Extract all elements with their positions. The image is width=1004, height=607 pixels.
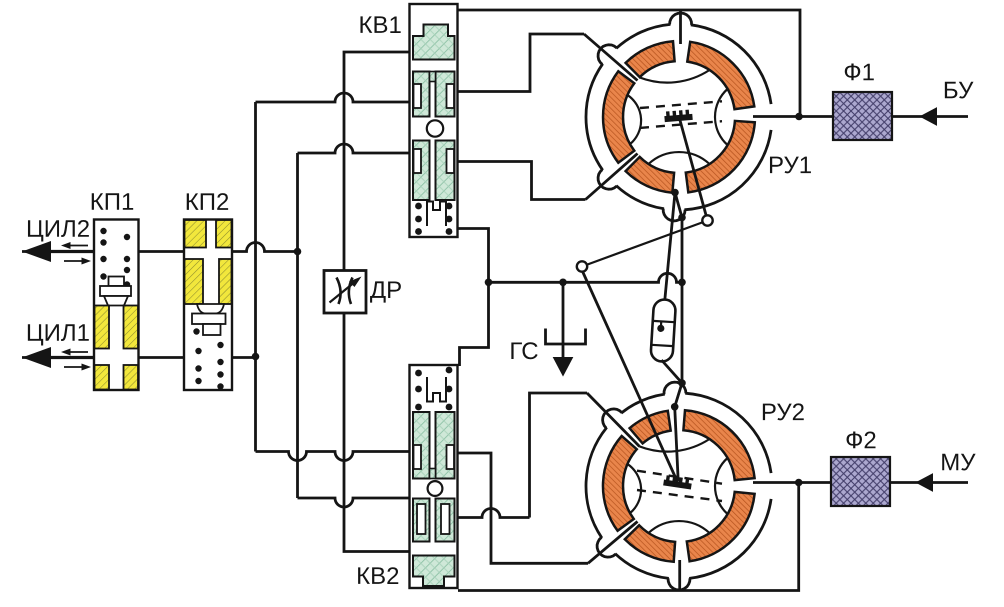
KV2 lower spool land right [436,499,455,542]
damper rod lower [662,360,683,383]
RU1 spool tongue [664,109,693,122]
lever: RU1 rotor output lever [680,119,708,221]
KV2 body [410,365,458,588]
svg-text:ЦИЛ2: ЦИЛ2 [26,216,90,243]
svg-text:БУ: БУ [943,77,974,104]
KV1 upper bar [430,72,436,82]
RU2 spool tongue [663,475,692,490]
damper rod upper [665,193,675,301]
DR throttle curves [337,278,353,305]
pivot P1 [577,261,587,271]
svg-text:КП2: КП2 [185,189,230,216]
KV1 body [410,4,458,237]
arrow: BU flow arrowhead [921,108,937,125]
RU1 housing (scalloped body) [586,13,771,221]
RU2 rotor crescent N [639,439,709,452]
KP2 seat blocks (yellow cross) [185,220,207,248]
RU1 spool slot dashed lines [640,101,722,128]
KV2 lower spool land left [413,499,430,542]
KP2 spring dots [193,328,199,334]
link: pivot1 to RU2 rotor [581,268,678,482]
wire: KV1 right port 1 to RU1 upper-left lever [457,34,584,92]
wire: KV1 left port 1 down to DR (vertical C) [344,52,412,270]
filter F2 [831,457,890,506]
DR box [324,271,366,314]
wire: DR to KV2 lower-left port [344,313,415,552]
filter F1 [833,92,892,140]
link: pivot1 to pivot2 rod [582,221,708,267]
KV2 lower port window right [441,504,450,534]
svg-text:КП1: КП1 [90,189,135,216]
wire: KV1 left port 3 via vertical B to KV2 (hop C) [298,144,413,153]
wire: CIL1 line through KP1/KP2 to node A [22,356,256,359]
KP2 poppet [197,304,224,314]
arrow: MU flow arrowhead [917,474,933,491]
RU1 ring (orange sleeve with ports) [687,42,754,109]
RU2 ring (orange sleeve with ports) [683,410,754,480]
wire: RU2 bottom stub [678,560,681,591]
KP1 body [94,220,139,391]
wire: CIL2 line through KP1/KP2 to node B (hop A) [22,243,298,252]
lever: RU2 lower-left pipe into ring [588,522,638,564]
KV2 upper port window left [414,445,422,469]
wire: bottom bus KV2 to F2 junction [458,483,799,591]
KP2 body [184,220,232,391]
wire: top bus from KV1 to F1 junction [457,10,800,117]
KV1 lower spool land right [436,141,455,201]
svg-text:РУ2: РУ2 [761,399,805,426]
KV1 upper port window right [447,84,455,108]
wire: mid bus y=282 (hop over damper rod) [489,273,683,282]
RU2 rotor crescent W [628,464,642,513]
RU2 housing (scalloped body) [586,382,771,590]
tank GS symbol [546,329,586,345]
KV1 lower port window left [414,149,422,173]
KV2 lower port window left [417,504,426,534]
svg-text:Ф2: Ф2 [845,427,877,454]
damper D1 (capsule) [650,299,676,362]
RU1 rotor crescent N [639,70,709,83]
arrow CIL2 main [50,250,94,253]
wire: F1 to BU arrow line [892,115,968,118]
RU1 rotor crescent S [649,152,710,164]
lever: RU1 lower-left pipe into ring [586,154,638,200]
wire: KV2 right port 1 to RU2 lower-left lever [457,453,588,563]
svg-text:РУ1: РУ1 [768,152,812,179]
svg-text:ДР: ДР [370,277,402,304]
RU2 rotor crescent E [715,458,728,514]
KV1 poppet seat piece [427,202,446,227]
arrow CIL2 small pair [68,245,88,247]
wire: KV1 right port 2 to RU1 lower-left lever [457,162,586,200]
KV2 upper spool land right [436,412,455,479]
wire: RU1 top stub [679,10,682,44]
KV2 bottom plug (green) [413,556,455,587]
arrow CIL1 small pair [68,351,88,353]
wire: RU1 right gap to F1 [753,115,833,118]
svg-text:МУ: МУ [940,449,976,476]
lever: RU1 upper-left pipe into ring [584,34,638,81]
wire: KV2 right port 2 to RU2 upper-left lever (hop) [457,509,530,518]
KP1 spring dots [100,228,106,234]
KV1 top plug (green) [413,25,455,60]
KV2 upper port window right [447,445,455,469]
KV1 upper port window left [414,84,422,108]
wire: KV1 left port 2 via vertical A to KV2 (hops B,C) [256,93,413,102]
KV1 lower port window right [447,149,455,173]
link: RU1 bottom to feedback column [675,193,682,407]
KV1 ball [427,120,443,136]
RU1 rotor crescent E [715,89,728,145]
KV2 ball [428,481,443,496]
arrow CIL1 main [50,356,94,359]
KV1 lower spool land left [413,141,430,201]
KP1 seat blocks (yellow cross) [95,306,110,349]
lever: RU2 input lever to rotor [675,407,679,481]
wire: GS drain drop [562,282,565,360]
KP1 poppet [109,277,125,287]
pivot P2 [702,215,712,225]
arrow: GS drain arrowhead [554,358,573,376]
KV2 upper bar [430,469,436,479]
svg-text:ЦИЛ1: ЦИЛ1 [26,320,90,347]
wire: RU2 right gap to F2 [753,481,831,484]
KV1 upper spool land right [436,72,455,117]
svg-text:КВ2: КВ2 [356,563,399,590]
svg-text:Ф1: Ф1 [843,59,875,86]
KV2 spring dots [415,370,422,377]
wire: F2 to MU arrow line [890,481,968,484]
svg-text:КВ1: КВ1 [358,12,401,39]
KV1 spring dots [415,203,422,210]
KV2 upper spool land left [413,412,430,479]
RU1 rotor crescent W [628,95,642,144]
RU2 rotor crescent S [649,521,710,533]
junction nodes [795,113,803,121]
KV1 upper spool land left [413,72,430,117]
lever: RU2 upper-left pipe into ring [587,393,640,447]
RU2 spool slot dashed lines [637,471,722,501]
KV2 poppet seat piece [427,377,446,402]
wire: KV1 bottom port down to mid bus and KV2 top [457,229,489,367]
DR adjust arrow [330,281,357,303]
svg-text:ГС: ГС [509,338,538,365]
